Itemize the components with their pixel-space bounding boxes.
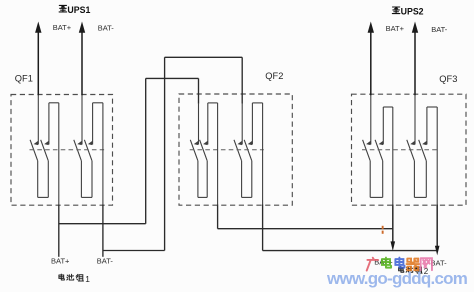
svg-text:UPS2: UPS2 [401,6,424,16]
breaker pole: QF3 pole 2 (fixed contact + blade) [375,140,383,198]
svg-text:QF3: QF3 [439,74,457,84]
breaker pole: QF2 pole 4 (fixed contact + blade) [244,140,252,198]
wire: battery1 BAT- top run to QF2 pole 3 [165,56,243,58]
wire: QF1 BAT- bottom series link [81,196,92,198]
svg-text:QF1: QF1 [15,74,33,84]
wire: QF2 BAT- top jumper [252,102,262,104]
breaker pole: QF1 pole 2 (fixed contact + blade) [41,140,49,198]
label: battery group 2 (Chinese) [399,267,429,276]
wire: battery1 BAT+ riser through QF1 down to terminal [58,103,60,257]
wire: QF2 pole 3 feed drop [241,57,243,144]
wire: QF2 BAT+ jumper leg to pole 2 [207,103,209,145]
wire/arrow: QF3 riser down to battery2 BAT- terminal [435,107,440,255]
wire: QF2 BAT+ top jumper [208,102,218,104]
breaker pole: QF3 pole 1 (fixed contact + blade) [363,140,371,198]
breaker pole: QF2 pole 1 (fixed contact + blade) [190,140,198,198]
wire: battery1 BAT- horizontal run to tie bus [103,250,165,252]
watermark: site name characters [367,258,432,271]
wire/arrow: QF1 output BAT- up to UPS1 [79,22,85,145]
svg-text:1: 1 [85,274,90,284]
wire: QF3 BAT- jumper leg to pole 4 [426,107,428,145]
breaker pole: QF2 pole 2 (fixed contact + blade) [200,140,208,198]
label: battery2 BAT- terminal [431,258,448,267]
wire: QF3 BAT- top jumper [427,106,437,108]
svg-text:BAT+: BAT+ [386,24,405,33]
wire/arrow: QF3 output BAT- up to UPS2 [412,22,418,145]
label: to UPS1 (Chinese zhi + UPS1) [59,5,90,15]
wire: QF2 BAT+ riser down from box [217,103,219,229]
label QF1 [15,74,33,84]
breaker pole: QF3 pole 3 (fixed contact + blade) [407,140,415,198]
wire: QF1 BAT+ bottom series link [38,196,49,198]
svg-text:UPS1: UPS1 [67,5,90,15]
label: battery group 1 (Chinese) [59,274,90,284]
label: to UPS2 (Chinese zhi + UPS2) [392,6,423,16]
wire: battery1 BAT+ horizontal run to tie bus [59,223,146,225]
svg-text:BAT-: BAT- [431,25,448,34]
circuit breaker QF3 enclosure (dashed box) [352,94,467,205]
wire: QF1 BAT- jumper leg to pole 4 [92,103,94,145]
breaker pole: QF2 pole 3 (fixed contact + blade) [234,140,242,198]
wire: QF3 BAT+ top jumper [383,106,393,108]
QF2 mechanical linkage (dashed) [190,149,264,151]
wire: QF3 BAT+ jumper leg to pole 2 [382,107,384,145]
breaker pole: QF1 pole 4 (fixed contact + blade) [84,140,92,198]
wire/arrow: QF3 output BAT+ up to UPS2 [368,22,374,145]
svg-text:BAT-: BAT- [98,23,115,32]
wire: QF1 BAT+ jumper leg to pole 2 [48,103,50,145]
wire/arrow: QF3 riser down to battery2 BAT+ terminal [391,107,396,251]
wire: QF1 BAT- top jumper [93,102,103,104]
svg-text:BAT+: BAT+ [53,23,72,32]
wire: battery1 BAT- riser through QF1 down to terminal [102,103,104,257]
circuit breaker QF1 enclosure (dashed box) [11,95,113,206]
svg-text:BAT-: BAT- [97,256,114,265]
wire: battery1 BAT- vertical riser to QF2 feed [164,57,166,250]
svg-text:BAT-: BAT- [431,258,448,267]
QF1 mechanical linkage (dashed) [30,149,105,151]
wire: QF2 BAT- bottom series link [242,196,252,198]
wire: QF2 BAT- jumper leg to pole 4 [251,103,253,145]
label: BAT+ (UPS2 feed) [386,24,405,33]
circuit breaker QF2 enclosure (dashed box) [179,94,292,205]
QF3 mechanical linkage (dashed) [362,149,438,151]
wire: QF2 BAT+ bottom series link [198,196,207,198]
wire: battery1 BAT+ vertical riser to QF2 feed [145,78,147,223]
wire: QF2 BAT- riser down from box [262,103,264,251]
wire: battery1 BAT+ top run to QF2 pole 1 [146,77,199,79]
svg-text:www.go-gddq.com: www.go-gddq.com [326,269,468,288]
wire: QF1 BAT+ top jumper [49,102,59,104]
label: battery1 BAT+ terminal [51,256,70,265]
wire: QF2 to battery2 BAT- horizontal run [263,250,438,252]
wire/arrow: QF1 output BAT+ up to UPS1 [35,22,41,145]
label: BAT+ (UPS1 feed) [53,23,72,32]
wire: QF3 BAT- bottom series link [414,196,426,198]
breaker pole: QF3 pole 4 (fixed contact + blade) [419,140,427,198]
breaker pole: QF1 pole 1 (fixed contact + blade) [30,140,38,198]
breaker pole: QF1 pole 3 (fixed contact + blade) [74,140,82,198]
svg-text:BAT+: BAT+ [51,256,70,265]
orange highlight tick on BAT+ bus [382,226,384,234]
watermark: site url [326,269,468,288]
wire: QF3 BAT+ bottom series link [370,196,383,198]
label QF3 [439,74,457,84]
label QF2 [265,71,283,81]
label: BAT- (UPS2 feed) [431,25,448,34]
svg-text:QF2: QF2 [265,71,283,81]
label: BAT- (UPS1 feed) [98,23,115,32]
wire: QF2 pole 1 feed drop [198,78,200,144]
wire: QF2 to battery2 BAT+ horizontal run [218,228,393,230]
label: battery2 BAT+ terminal [374,257,393,266]
label: battery1 BAT- terminal [97,256,114,265]
